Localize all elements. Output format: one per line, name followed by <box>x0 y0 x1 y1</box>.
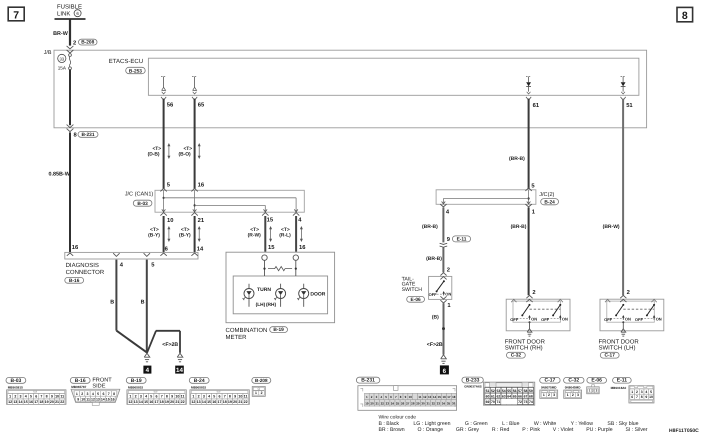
svg-text:Wire colour code: Wire colour code <box>379 414 417 420</box>
svg-text:2: 2 <box>261 391 263 395</box>
svg-text:ON: ON <box>531 317 537 322</box>
svg-text:12: 12 <box>191 400 195 404</box>
svg-text:70: 70 <box>491 400 495 404</box>
svg-text:31: 31 <box>426 401 430 405</box>
svg-text:14: 14 <box>197 247 204 253</box>
svg-text:10: 10 <box>81 397 85 401</box>
svg-text:16: 16 <box>299 244 306 251</box>
svg-text:7: 7 <box>161 395 163 399</box>
svg-text:10: 10 <box>167 217 173 224</box>
svg-text:59: 59 <box>529 389 533 393</box>
svg-text:MB965815: MB965815 <box>128 386 143 390</box>
svg-text:35: 35 <box>447 401 451 405</box>
svg-text:7: 7 <box>224 395 226 399</box>
svg-text:ON: ON <box>625 317 631 322</box>
svg-text:55: 55 <box>507 389 511 393</box>
svg-text:19: 19 <box>165 400 169 404</box>
svg-text:COMBINATION: COMBINATION <box>226 327 268 334</box>
svg-text:0N8045MD: 0N8045MD <box>565 385 581 389</box>
svg-text:17: 17 <box>155 400 159 404</box>
svg-text:14: 14 <box>139 400 143 404</box>
svg-text:69: 69 <box>486 400 490 404</box>
svg-text:9: 9 <box>77 397 79 401</box>
svg-text:OFF: OFF <box>541 317 550 322</box>
svg-text:J/C (CAN1): J/C (CAN1) <box>125 191 154 198</box>
svg-text:BR : Brown O : Orange: BR : Brown O : Orange GR : Grey R : Red … <box>379 427 648 433</box>
svg-text:(R-L): (R-L) <box>279 233 291 239</box>
svg-text:16: 16 <box>198 182 205 189</box>
svg-text:B-16: B-16 <box>75 378 86 384</box>
svg-text:5: 5 <box>650 390 652 394</box>
svg-text:B-233: B-233 <box>466 378 480 384</box>
svg-text:13: 13 <box>134 400 138 404</box>
svg-text:21: 21 <box>175 400 179 404</box>
svg-text:14: 14 <box>176 367 183 374</box>
svg-text:6: 6 <box>443 368 447 375</box>
svg-text:3: 3 <box>87 392 89 396</box>
svg-text:13: 13 <box>197 400 201 404</box>
svg-text:(B-O): (B-O) <box>178 152 191 158</box>
svg-text:9: 9 <box>645 395 647 399</box>
svg-text:<T>: <T> <box>183 146 192 152</box>
svg-text:11: 11 <box>418 395 422 399</box>
svg-text:10: 10 <box>409 395 413 399</box>
svg-text:8: 8 <box>46 395 48 399</box>
svg-text:27: 27 <box>406 401 410 405</box>
svg-text:B: B <box>141 299 145 305</box>
svg-text:B-03: B-03 <box>137 201 148 207</box>
svg-text:52: 52 <box>491 389 495 393</box>
svg-text:73: 73 <box>524 400 528 404</box>
svg-text:10: 10 <box>55 395 59 399</box>
svg-text:6: 6 <box>631 395 633 399</box>
svg-text:<T>: <T> <box>250 227 259 233</box>
svg-text:8: 8 <box>229 395 231 399</box>
svg-text:4: 4 <box>208 395 210 399</box>
svg-text:B-19: B-19 <box>273 327 284 333</box>
svg-text:4: 4 <box>25 395 27 399</box>
svg-text:3: 3 <box>553 393 555 397</box>
svg-text:B-24: B-24 <box>544 199 555 205</box>
svg-text:C-32: C-32 <box>568 378 579 384</box>
svg-text:34: 34 <box>442 401 446 405</box>
svg-text:10: 10 <box>649 395 653 399</box>
svg-text:B-208: B-208 <box>255 378 268 383</box>
svg-text:2: 2 <box>627 289 630 296</box>
svg-text:18: 18 <box>160 400 164 404</box>
svg-text:GN0037A6S: GN0037A6S <box>464 385 482 389</box>
svg-text:2: 2 <box>548 393 550 397</box>
svg-text:<T>: <T> <box>150 227 159 233</box>
svg-text:(B-Y): (B-Y) <box>179 233 191 239</box>
svg-text:TURN: TURN <box>257 287 271 293</box>
svg-text:33: 33 <box>59 56 64 61</box>
svg-text:58: 58 <box>524 389 528 393</box>
svg-text:3: 3 <box>20 395 22 399</box>
svg-text:15: 15 <box>268 245 275 251</box>
svg-text:ON: ON <box>445 292 451 297</box>
svg-text:17: 17 <box>34 400 38 404</box>
svg-text:<T>: <T> <box>181 227 190 233</box>
svg-text:B-03: B-03 <box>10 378 21 384</box>
svg-text:2: 2 <box>532 289 535 296</box>
svg-text:13: 13 <box>428 395 432 399</box>
svg-text:14: 14 <box>19 400 23 404</box>
svg-text:(BR-B): (BR-B) <box>426 256 442 262</box>
svg-text:71: 71 <box>496 400 500 404</box>
svg-text:15: 15 <box>438 395 442 399</box>
svg-text:(RH): (RH) <box>266 302 277 308</box>
svg-text:7: 7 <box>636 395 638 399</box>
svg-text:1: 1 <box>76 392 78 396</box>
svg-text:22: 22 <box>181 400 185 404</box>
svg-text:E-06: E-06 <box>411 297 421 303</box>
svg-text:62: 62 <box>496 395 500 399</box>
svg-text:(D-B): (D-B) <box>148 152 160 158</box>
svg-text:56: 56 <box>167 102 174 109</box>
svg-text:54: 54 <box>502 389 506 393</box>
svg-text:5: 5 <box>150 395 152 399</box>
svg-text:J/C(2): J/C(2) <box>539 191 554 198</box>
svg-text:7: 7 <box>108 392 110 396</box>
svg-text:9: 9 <box>171 395 173 399</box>
svg-text:12: 12 <box>8 400 12 404</box>
svg-text:MB965815: MB965815 <box>8 386 23 390</box>
svg-text:B-231: B-231 <box>81 132 94 138</box>
svg-text:56: 56 <box>513 389 517 393</box>
svg-text:1: 1 <box>129 395 131 399</box>
svg-text:E-11: E-11 <box>457 237 467 243</box>
svg-text:(BR-W): (BR-W) <box>603 224 620 230</box>
svg-text:METER: METER <box>226 334 248 341</box>
svg-text:14: 14 <box>101 397 105 401</box>
svg-text:51: 51 <box>486 389 490 393</box>
svg-text:(BR-B): (BR-B) <box>509 156 525 162</box>
svg-text:15: 15 <box>24 400 28 404</box>
svg-text:21: 21 <box>375 401 379 405</box>
svg-text:2: 2 <box>636 390 638 394</box>
svg-text:8: 8 <box>113 392 115 396</box>
svg-text:SWITCH (RH): SWITCH (RH) <box>505 345 543 352</box>
svg-text:B-253: B-253 <box>129 68 142 74</box>
svg-text:8: 8 <box>641 395 643 399</box>
svg-text:4: 4 <box>145 395 147 399</box>
svg-text:FRONT DOOR: FRONT DOOR <box>505 339 546 346</box>
svg-text:DOOR: DOOR <box>310 291 325 297</box>
svg-text:65: 65 <box>198 102 205 109</box>
svg-text:3: 3 <box>140 395 142 399</box>
svg-text:SIDE: SIDE <box>92 383 105 389</box>
svg-text:6: 6 <box>102 392 104 396</box>
svg-text:5: 5 <box>213 395 215 399</box>
svg-text:68: 68 <box>529 395 533 399</box>
svg-text:19: 19 <box>45 400 49 404</box>
svg-text:12: 12 <box>91 397 95 401</box>
svg-text:2: 2 <box>447 266 450 273</box>
svg-text:21: 21 <box>198 217 205 224</box>
svg-text:(LH): (LH) <box>256 302 266 308</box>
svg-text:<F>2B: <F>2B <box>162 342 178 348</box>
svg-text:MB965815: MB965815 <box>191 386 206 390</box>
svg-text:ETACS-ECU: ETACS-ECU <box>109 58 143 65</box>
svg-text:16: 16 <box>212 400 216 404</box>
svg-text:8: 8 <box>166 395 168 399</box>
svg-text:21: 21 <box>55 400 59 404</box>
svg-text:B-19: B-19 <box>131 378 142 384</box>
svg-text:53: 53 <box>496 389 500 393</box>
svg-text:LINK: LINK <box>57 10 70 17</box>
svg-text:H8F11T050C: H8F11T050C <box>669 428 699 434</box>
svg-text:CONNECTOR: CONNECTOR <box>66 269 105 276</box>
svg-text:10: 10 <box>238 395 242 399</box>
svg-text:B-16: B-16 <box>69 278 80 284</box>
svg-text:B: B <box>110 299 114 305</box>
svg-text:15: 15 <box>106 397 110 401</box>
svg-text:11: 11 <box>86 397 90 401</box>
svg-text:21: 21 <box>238 400 242 404</box>
svg-text:E-06: E-06 <box>591 378 602 384</box>
svg-text:61: 61 <box>533 102 540 109</box>
svg-text:11: 11 <box>244 395 248 399</box>
svg-text:6: 6 <box>219 395 221 399</box>
svg-text:22: 22 <box>381 401 385 405</box>
svg-text:24: 24 <box>391 401 395 405</box>
svg-text:18: 18 <box>452 395 456 399</box>
svg-text:19: 19 <box>228 400 232 404</box>
svg-text:(R-W): (R-W) <box>248 233 261 239</box>
svg-text:20: 20 <box>170 400 174 404</box>
svg-text:5: 5 <box>97 392 99 396</box>
svg-text:B-231: B-231 <box>361 378 375 384</box>
svg-text:29: 29 <box>416 401 420 405</box>
svg-text:20: 20 <box>233 400 237 404</box>
svg-text:3: 3 <box>203 395 205 399</box>
svg-text:13: 13 <box>13 400 17 404</box>
svg-text:15: 15 <box>267 218 274 224</box>
svg-text:28: 28 <box>411 401 415 405</box>
svg-text:17: 17 <box>447 395 451 399</box>
svg-text:26: 26 <box>401 401 405 405</box>
svg-text:(B-Y): (B-Y) <box>148 233 160 239</box>
svg-text:B-208: B-208 <box>81 40 94 46</box>
svg-text:30: 30 <box>421 401 425 405</box>
svg-text:17: 17 <box>218 400 222 404</box>
svg-text:11: 11 <box>60 395 64 399</box>
svg-text:22: 22 <box>60 400 64 404</box>
svg-text:SWITCH (LH): SWITCH (LH) <box>599 345 636 352</box>
svg-text:16: 16 <box>72 244 79 251</box>
svg-text:0N8075MD: 0N8075MD <box>541 385 557 389</box>
svg-text:22: 22 <box>244 400 248 404</box>
svg-text:B : Black LG : Light: B : Black LG : Light green G : Green L :… <box>379 421 639 427</box>
svg-text:25: 25 <box>396 401 400 405</box>
svg-text:(BR-B): (BR-B) <box>511 224 527 230</box>
svg-text:OFF: OFF <box>635 317 644 322</box>
svg-text:OFF: OFF <box>510 317 519 322</box>
svg-text:ON: ON <box>562 317 568 322</box>
svg-text:13: 13 <box>96 397 100 401</box>
svg-text:J/B: J/B <box>44 50 52 56</box>
svg-text:MB9018A0: MB9018A0 <box>611 386 627 390</box>
svg-text:2: 2 <box>135 395 137 399</box>
svg-text:4: 4 <box>645 390 647 394</box>
svg-text:1: 1 <box>255 391 257 395</box>
svg-text:1: 1 <box>567 393 569 397</box>
svg-text:74: 74 <box>529 400 533 404</box>
svg-text:2: 2 <box>81 392 83 396</box>
svg-text:OFF: OFF <box>429 292 438 297</box>
svg-text:14: 14 <box>433 395 437 399</box>
svg-text:18: 18 <box>39 400 43 404</box>
svg-text:19: 19 <box>365 401 369 405</box>
svg-text:32: 32 <box>432 401 436 405</box>
svg-text:67: 67 <box>524 395 528 399</box>
svg-text:16: 16 <box>29 400 33 404</box>
svg-text:14: 14 <box>202 400 206 404</box>
svg-text:6: 6 <box>156 395 158 399</box>
svg-text:60: 60 <box>486 395 490 399</box>
svg-text:2: 2 <box>73 40 76 47</box>
svg-text:C-32: C-32 <box>511 353 522 359</box>
svg-text:7: 7 <box>13 10 19 22</box>
svg-text:15: 15 <box>207 400 211 404</box>
svg-text:6: 6 <box>35 395 37 399</box>
svg-text:12: 12 <box>423 395 427 399</box>
svg-text:16: 16 <box>149 400 153 404</box>
svg-text:15: 15 <box>144 400 148 404</box>
svg-text:1: 1 <box>192 395 194 399</box>
svg-text:E-11: E-11 <box>617 378 628 384</box>
svg-text:7: 7 <box>40 395 42 399</box>
svg-text:B-24: B-24 <box>194 378 205 384</box>
svg-text:20: 20 <box>50 400 54 404</box>
svg-text:<F>2B: <F>2B <box>427 342 443 348</box>
svg-text:(B): (B) <box>432 314 439 320</box>
svg-text:63: 63 <box>502 395 506 399</box>
svg-text:4: 4 <box>146 367 150 374</box>
svg-text:61: 61 <box>491 395 495 399</box>
svg-text:3: 3 <box>641 390 643 394</box>
svg-text:65: 65 <box>513 395 517 399</box>
svg-text:8: 8 <box>682 10 688 22</box>
svg-text:15A: 15A <box>58 66 67 71</box>
svg-text:9: 9 <box>234 395 236 399</box>
svg-text:FRONT DOOR: FRONT DOOR <box>599 339 640 346</box>
svg-text:BR-W: BR-W <box>53 31 69 37</box>
svg-text:SWITCH: SWITCH <box>402 287 423 293</box>
svg-text:<T>: <T> <box>281 227 290 233</box>
svg-text:9: 9 <box>51 395 53 399</box>
svg-text:2: 2 <box>198 395 200 399</box>
svg-text:DIAGNOSIS: DIAGNOSIS <box>66 262 99 269</box>
svg-text:ON: ON <box>656 317 662 322</box>
svg-text:16: 16 <box>442 395 446 399</box>
svg-text:72: 72 <box>518 400 522 404</box>
svg-text:12: 12 <box>128 400 132 404</box>
svg-text:2: 2 <box>14 395 16 399</box>
svg-text:66: 66 <box>518 395 522 399</box>
svg-text:10: 10 <box>175 395 179 399</box>
svg-text:33: 33 <box>437 401 441 405</box>
svg-text:20: 20 <box>370 401 374 405</box>
svg-text:4: 4 <box>92 392 94 396</box>
svg-text:23: 23 <box>386 401 390 405</box>
svg-text:1: 1 <box>543 393 545 397</box>
svg-text:51: 51 <box>626 103 633 109</box>
svg-text:16: 16 <box>111 397 115 401</box>
svg-text:64: 64 <box>507 395 511 399</box>
svg-text:3: 3 <box>577 393 579 397</box>
svg-text:(BR-B): (BR-B) <box>422 224 438 230</box>
svg-text:57: 57 <box>518 389 522 393</box>
svg-text:11: 11 <box>181 395 185 399</box>
svg-text:C-17: C-17 <box>544 378 555 384</box>
svg-text:1: 1 <box>631 390 633 394</box>
svg-text:0.85B-W: 0.85B-W <box>49 171 71 177</box>
svg-text:2: 2 <box>572 393 574 397</box>
svg-text:MB965787: MB965787 <box>71 385 86 389</box>
svg-text:1: 1 <box>9 395 11 399</box>
svg-text:<T>: <T> <box>152 146 161 152</box>
svg-text:OFF: OFF <box>604 317 613 322</box>
svg-text:18: 18 <box>223 400 227 404</box>
svg-text:5: 5 <box>30 395 32 399</box>
svg-text:C-17: C-17 <box>604 353 615 359</box>
